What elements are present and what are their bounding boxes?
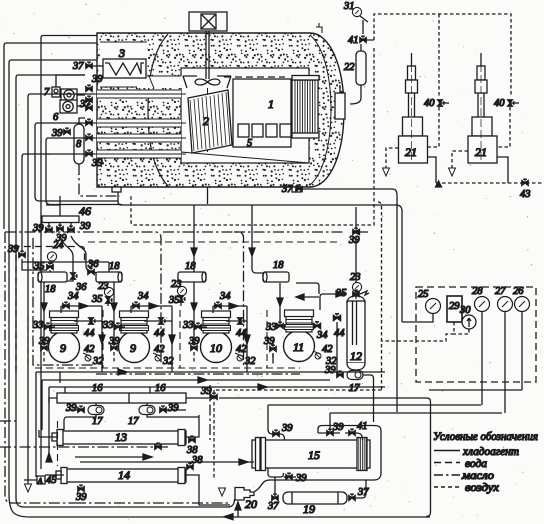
loop over 15 <box>255 426 382 492</box>
component 7 <box>52 87 60 97</box>
svg-text:37: 37 <box>267 501 279 512</box>
valves 40 <box>438 100 444 106</box>
gauge 27 <box>498 297 513 312</box>
svg-text:42: 42 <box>154 344 165 355</box>
svg-text:34: 34 <box>137 291 149 302</box>
svg-text:вода: вода <box>465 458 487 470</box>
component 20 <box>235 488 254 501</box>
instrument 30 <box>462 315 476 329</box>
discharge into 12 <box>320 294 347 310</box>
svg-text:12: 12 <box>350 349 362 363</box>
svg-text:39: 39 <box>295 473 307 484</box>
svg-text:39: 39 <box>79 221 91 232</box>
svg-text:Условные обозначения: Условные обозначения <box>433 429 538 443</box>
svg-text:26: 26 <box>513 286 524 297</box>
svg-text:42: 42 <box>236 344 247 355</box>
Y split <box>60 236 73 281</box>
svg-text:16: 16 <box>92 383 103 394</box>
svg-text:39: 39 <box>348 235 360 246</box>
svg-text:11: 11 <box>293 340 304 354</box>
bar 16 <box>57 393 186 403</box>
svg-text:воздух: воздух <box>465 482 500 494</box>
component 3 white notch <box>100 42 147 87</box>
machine room cavity <box>181 68 309 163</box>
svg-text:32: 32 <box>162 356 174 367</box>
svg-text:хладоагент: хладоагент <box>462 446 519 458</box>
svg-text:42: 42 <box>322 344 333 355</box>
gauge 25 <box>426 299 441 314</box>
svg-text:39: 39 <box>188 336 200 347</box>
svg-text:34: 34 <box>67 291 79 302</box>
gauge 26 <box>515 297 530 312</box>
motor 6 <box>61 89 77 101</box>
sight glass right cap <box>335 93 345 119</box>
manifold 46 <box>42 216 79 223</box>
svg-text:9: 9 <box>60 341 66 355</box>
device 21 #2 <box>468 53 497 163</box>
svg-text:34: 34 <box>316 330 328 341</box>
header 18 #1 <box>38 272 67 282</box>
fan <box>195 79 220 85</box>
svg-text:39: 39 <box>281 423 293 434</box>
svg-text:34: 34 <box>219 291 231 302</box>
svg-text:28: 28 <box>472 286 483 297</box>
oil dash-dot main <box>5 232 161 365</box>
HX 13 <box>52 430 198 457</box>
evaporator 2 (parallelogram hatched) <box>188 90 232 153</box>
svg-text:44: 44 <box>236 328 247 339</box>
long line y205 from manifold to right vertical <box>118 192 402 322</box>
svg-text:33: 33 <box>102 320 114 331</box>
svg-text:A: A <box>37 477 43 485</box>
svg-text:39: 39 <box>332 422 344 433</box>
svg-text:23: 23 <box>350 272 361 283</box>
svg-text:42: 42 <box>84 344 95 355</box>
gauges near headers <box>104 287 113 296</box>
svg-text:21: 21 <box>405 145 417 159</box>
svg-text:46: 46 <box>79 204 91 218</box>
box 1 <box>233 79 291 147</box>
svg-text:40: 40 <box>424 98 435 109</box>
svg-text:14: 14 <box>118 468 130 482</box>
svg-text:19: 19 <box>303 502 315 516</box>
dash-dot from 8 down <box>79 164 120 196</box>
riser lines to headers <box>22 205 263 273</box>
valve 37 under vessel <box>296 185 302 191</box>
dashed mid connections <box>428 107 440 147</box>
header 18 #2 <box>96 272 122 282</box>
svg-text:17: 17 <box>128 416 139 427</box>
svg-text:44: 44 <box>154 328 165 339</box>
svg-text:9: 9 <box>130 341 136 355</box>
svg-text:23: 23 <box>171 279 182 290</box>
svg-text:5: 5 <box>247 138 252 149</box>
right verticals from vessel <box>426 398 431 517</box>
svg-text:20: 20 <box>245 497 257 511</box>
svg-text:15: 15 <box>308 448 320 462</box>
compressor 10 <box>201 311 232 363</box>
wire: discharge collectors <box>36 372 385 387</box>
vessel insulation body <box>97 33 344 187</box>
cylinder 22 <box>356 51 366 85</box>
wire: gauge sensing lines <box>219 398 481 405</box>
svg-text:44: 44 <box>334 328 345 339</box>
vessel floor line <box>181 152 309 163</box>
svg-text:39: 39 <box>167 403 179 414</box>
svg-text:18: 18 <box>45 284 56 295</box>
water dashed line in cavity <box>224 76 285 78</box>
vent box with X <box>189 12 227 31</box>
svg-text:27: 27 <box>495 286 506 297</box>
svg-text:2: 2 <box>203 114 209 128</box>
header 18 #3 <box>178 272 206 282</box>
svg-text:8: 8 <box>76 139 82 150</box>
svg-text:40: 40 <box>494 98 505 109</box>
svg-text:18: 18 <box>185 261 196 272</box>
header 18 #4 <box>263 272 289 282</box>
compressor 11 <box>284 310 315 362</box>
svg-text:35: 35 <box>168 295 180 306</box>
svg-text:10: 10 <box>210 341 222 355</box>
pump 17 under 12 <box>347 371 363 380</box>
svg-text:18: 18 <box>273 260 284 271</box>
svg-text:44: 44 <box>84 328 95 339</box>
svg-text:39: 39 <box>7 244 19 255</box>
svg-text:43: 43 <box>520 189 531 200</box>
from vessel top to manifold down left <box>46 138 122 205</box>
svg-text:41: 41 <box>348 35 359 46</box>
svg-text:1: 1 <box>268 97 274 111</box>
svg-text:масло: масло <box>461 470 494 482</box>
svg-text:39: 39 <box>38 336 50 347</box>
svg-text:37: 37 <box>281 184 293 195</box>
svg-text:37: 37 <box>72 61 84 72</box>
outer left loop <box>4 43 97 229</box>
feet <box>112 187 121 192</box>
vent duct <box>205 31 207 79</box>
svg-text:31: 31 <box>343 1 355 12</box>
vessel left end arc <box>148 34 168 186</box>
comp 1 fittings <box>32 282 105 372</box>
valve 39 under 14 <box>78 485 84 491</box>
bottom dashed collect line <box>428 157 437 183</box>
svg-text:33: 33 <box>32 320 44 331</box>
svg-text:38: 38 <box>191 455 203 466</box>
left white channels in insulation <box>97 90 181 158</box>
svg-text:39: 39 <box>91 74 103 85</box>
svg-text:39: 39 <box>91 158 103 169</box>
finned coil right <box>292 80 318 135</box>
HX 15 <box>252 438 370 471</box>
svg-text:16: 16 <box>155 383 166 394</box>
heat exchanger 3 <box>103 59 146 78</box>
panel output lines <box>482 312 522 413</box>
svg-text:35: 35 <box>91 294 103 305</box>
pumps 17 under bar <box>88 406 104 415</box>
svg-text:30: 30 <box>459 305 471 316</box>
svg-text:17: 17 <box>349 383 360 394</box>
svg-text:33: 33 <box>182 320 194 331</box>
svg-text:7: 7 <box>44 87 50 98</box>
HX 19 <box>283 492 347 516</box>
svg-text:18: 18 <box>109 261 120 272</box>
svg-text:6: 6 <box>53 112 59 123</box>
comp 3 fittings <box>182 282 256 372</box>
HX 14 <box>56 455 203 484</box>
compressor 9 (first) <box>49 311 80 363</box>
gauge 28 <box>475 297 490 312</box>
device 21 #1 <box>399 53 428 163</box>
compressor 9 (second) <box>119 311 150 363</box>
svg-text:41: 41 <box>357 421 368 432</box>
svg-text:22: 22 <box>344 62 355 73</box>
boxes 5 <box>238 124 249 137</box>
box 45 <box>37 476 45 484</box>
comp 2 fittings <box>102 282 175 372</box>
comp 4 fittings <box>263 283 345 367</box>
svg-text:36: 36 <box>87 259 99 270</box>
svg-text:23: 23 <box>98 281 109 292</box>
wire: oil lines bottom <box>0 421 168 447</box>
svg-text:3: 3 <box>118 46 125 60</box>
drop to 15 left <box>268 405 285 440</box>
svg-text:21: 21 <box>475 145 487 159</box>
valve 41 <box>360 36 366 42</box>
svg-text:29: 29 <box>449 301 460 312</box>
svg-text:25: 25 <box>418 289 429 300</box>
svg-text:32: 32 <box>92 356 104 367</box>
gauge 23/valve 35 on top <box>352 282 361 291</box>
svg-text:37: 37 <box>357 487 369 498</box>
svg-text:39: 39 <box>75 492 87 503</box>
svg-text:39: 39 <box>108 336 120 347</box>
svg-text:39: 39 <box>324 365 336 376</box>
sump under 15 <box>268 468 284 477</box>
recorder 29 <box>447 296 462 322</box>
svg-text:13: 13 <box>115 430 127 444</box>
component 8 <box>74 124 84 164</box>
svg-text:32: 32 <box>244 356 256 367</box>
svg-text:45: 45 <box>46 475 57 486</box>
dashed air box <box>374 14 511 96</box>
gauge 24 + valve 35 <box>47 252 56 261</box>
svg-text:24: 24 <box>53 240 64 251</box>
gauge 31 <box>352 7 361 16</box>
svg-text:39: 39 <box>65 403 77 414</box>
